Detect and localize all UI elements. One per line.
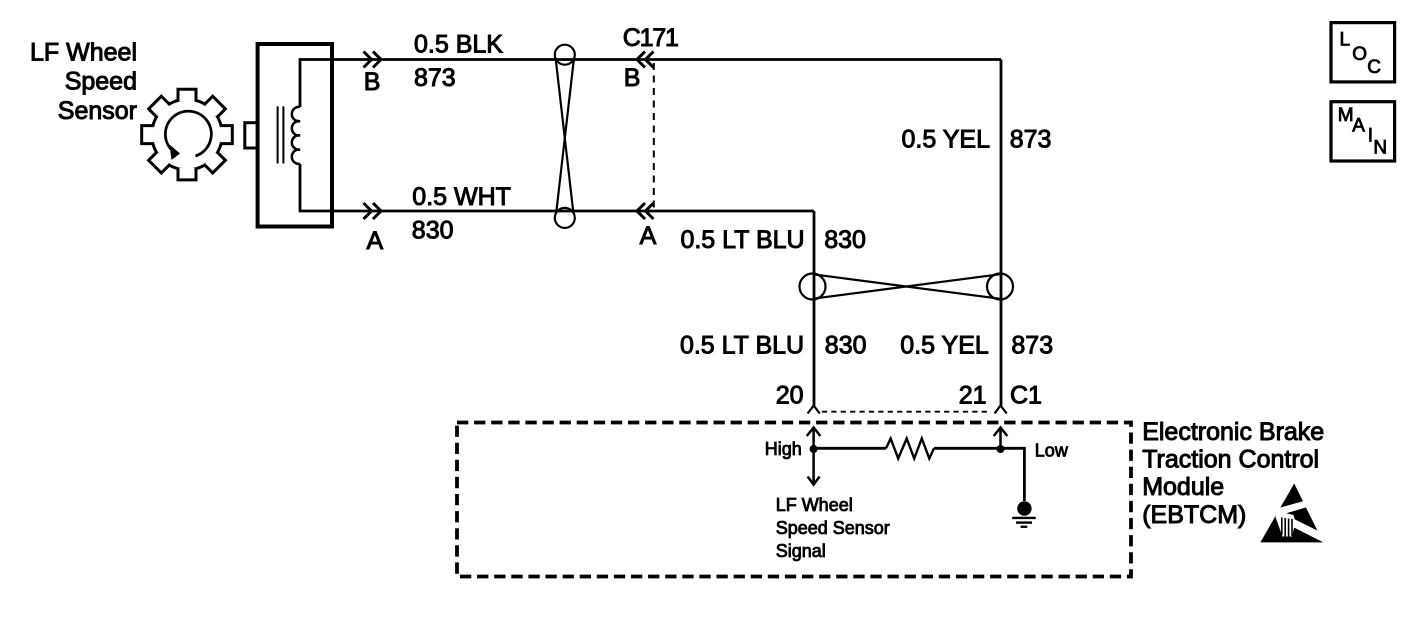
label LF Wheel Speed Sensor Signal [776, 495, 890, 561]
svg-text:Electronic Brake: Electronic Brake [1142, 418, 1324, 446]
svg-text:21: 21 [959, 382, 987, 410]
sensor box [258, 44, 332, 227]
wire node Low to ground [1001, 448, 1025, 501]
svg-text:(EBTCM): (EBTCM) [1142, 501, 1246, 529]
svg-text:O: O [1352, 44, 1367, 65]
svg-text:873: 873 [1011, 332, 1053, 360]
svg-text:C171: C171 [623, 24, 678, 52]
svg-text:LF Wheel: LF Wheel [776, 495, 853, 515]
svg-text:830: 830 [412, 217, 454, 245]
connector C171 dashed body [653, 63, 655, 209]
svg-text:873: 873 [414, 64, 456, 92]
wire A vertical segment (0.5 LT BLU) [813, 211, 816, 406]
svg-text:873: 873 [1010, 126, 1052, 154]
twisted pair symbol (horizontal) [800, 274, 1014, 300]
svg-text:20: 20 [776, 382, 804, 410]
svg-text:A: A [640, 222, 657, 250]
svg-text:0.5 LT BLU: 0.5 LT BLU [680, 226, 804, 254]
twisted pair symbol (vertical) [555, 45, 575, 228]
node High [810, 445, 818, 453]
EBTCM module dashed border [457, 423, 1131, 577]
svg-text:B: B [624, 64, 641, 92]
svg-text:Low: Low [1035, 441, 1069, 461]
label LF Wheel Speed Sensor [30, 39, 137, 126]
svg-text:Speed: Speed [65, 68, 137, 96]
magnetic core lines [278, 106, 284, 163]
svg-text:C1: C1 [1010, 382, 1042, 410]
ground [1012, 501, 1035, 527]
svg-text:A: A [1352, 116, 1365, 137]
signal down arrow [808, 449, 820, 485]
ESD sensitive device symbol [1260, 484, 1330, 545]
svg-text:A: A [367, 227, 384, 255]
sensor pickup tab [245, 123, 258, 148]
svg-text:LF Wheel: LF Wheel [30, 39, 137, 67]
internal wire High to resistor [814, 447, 886, 450]
internal up arrow pin 21 [994, 428, 1008, 450]
rotation arrowhead [170, 145, 181, 161]
connector C1 dashed body [822, 411, 990, 413]
wire B (0.5 BLK 873) [300, 60, 1001, 108]
svg-text:I: I [1368, 126, 1373, 147]
sensor coil [292, 107, 300, 164]
label Electronic Brake Traction Control Module (EBTCM) [1142, 418, 1324, 529]
resistor [886, 439, 934, 459]
svg-text:N: N [1373, 137, 1387, 158]
splice arrows wire A [364, 203, 382, 219]
svg-text:L: L [1340, 30, 1351, 51]
svg-text:Traction Control: Traction Control [1142, 446, 1319, 474]
svg-text:0.5 LT BLU: 0.5 LT BLU [680, 332, 804, 360]
svg-text:Sensor: Sensor [58, 97, 137, 125]
rotation arrow inside wheel [165, 111, 211, 156]
MAIN reference box [1331, 102, 1395, 161]
svg-text:Speed Sensor: Speed Sensor [776, 518, 890, 538]
svg-text:0.5 YEL: 0.5 YEL [900, 332, 989, 360]
internal up arrow pin 20 [807, 428, 821, 450]
svg-text:0.5 BLK: 0.5 BLK [414, 31, 503, 59]
svg-text:High: High [765, 439, 802, 459]
svg-text:Signal: Signal [776, 541, 826, 561]
svg-text:0.5 YEL: 0.5 YEL [901, 126, 990, 154]
svg-text:830: 830 [825, 332, 867, 360]
svg-text:Module: Module [1142, 473, 1224, 501]
internal wire resistor to node Low [934, 447, 1001, 450]
splice arrows wire B [364, 52, 382, 68]
connector C171 terminal A arrows [637, 203, 654, 219]
wire A (0.5 WHT 830) [300, 164, 814, 211]
svg-text:830: 830 [824, 226, 866, 254]
connector pin fork 20 [808, 406, 820, 414]
svg-text:0.5 WHT: 0.5 WHT [412, 183, 511, 211]
wire B vertical segment (0.5 YEL) [1000, 60, 1003, 407]
svg-text:B: B [364, 68, 381, 96]
svg-text:M: M [1338, 105, 1354, 126]
LOC reference box [1331, 23, 1395, 82]
toothed wheel (sensor rotor) [142, 89, 233, 180]
svg-text:C: C [1367, 57, 1381, 78]
node Low [997, 445, 1005, 453]
connector C171 terminal B arrows [637, 52, 654, 68]
connector pin fork 21 [995, 406, 1007, 414]
